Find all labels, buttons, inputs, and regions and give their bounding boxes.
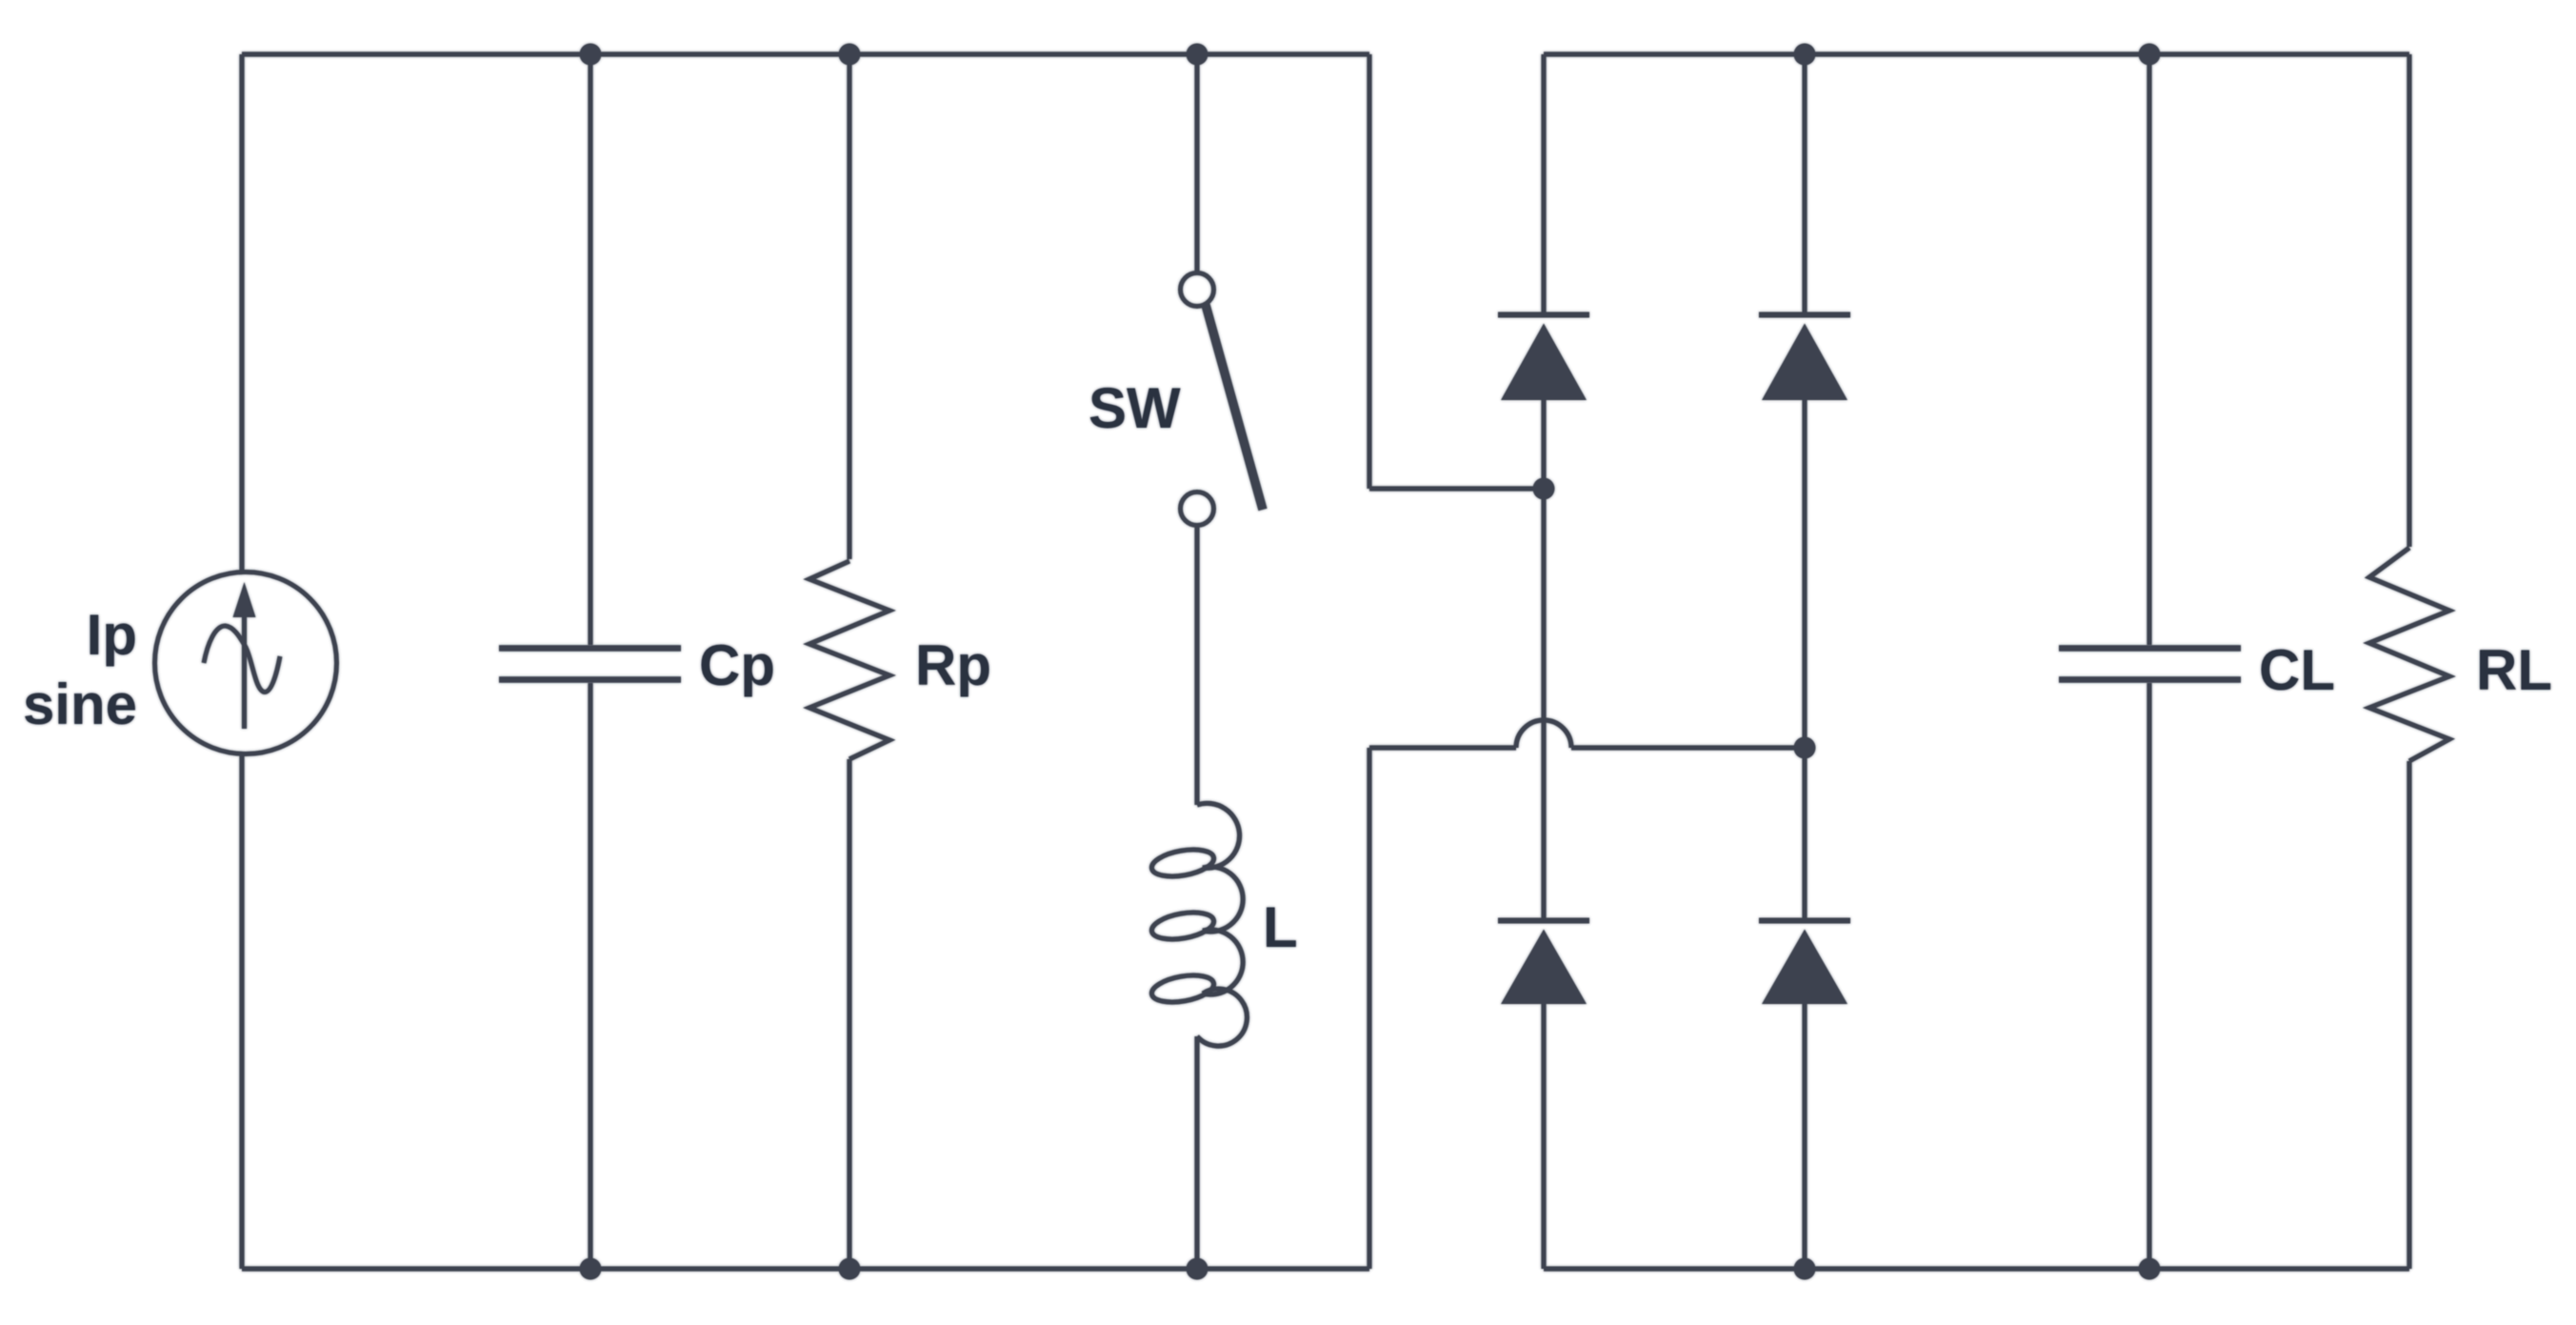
switch SW top contact circle (1181, 273, 1214, 307)
wire upper connector horizontal (1369, 486, 1544, 491)
node dot bridge left mid (1533, 478, 1555, 500)
svg-text:RL: RL (2476, 638, 2552, 702)
diode D4 triangle (1762, 930, 1847, 1005)
svg-text:sine: sine (23, 673, 137, 736)
diode D4 cathode bar (1759, 918, 1850, 924)
node dot top Cp (580, 44, 602, 66)
diode D2 anode lead (1802, 400, 1807, 748)
svg-text:SW: SW (1088, 376, 1181, 440)
node dot bridge bottom right branch (1794, 1258, 1816, 1280)
wire lower connector vertical (1367, 748, 1371, 1269)
resistor RL zigzag (2369, 548, 2449, 761)
node dot bridge top right branch (1794, 44, 1816, 66)
wire bottom rail left loop (242, 1266, 1369, 1271)
diode D3 cathode bar (1498, 918, 1589, 924)
inductor L coil bump 2 (1203, 867, 1243, 932)
node dot bottom L (1187, 1258, 1208, 1280)
inductor L coil bump 4 (1197, 989, 1247, 1046)
inductor L loop 1 (1149, 845, 1216, 880)
node dot top CL (2139, 44, 2161, 66)
diode D1 cathode bar (1498, 312, 1589, 318)
wire lower connector horizontal left (1369, 745, 1516, 750)
diode D3 lead from mid node (1541, 489, 1546, 918)
resistor Rp zigzag (809, 561, 889, 759)
inductor L coil bump 1 (1197, 803, 1240, 868)
resistor RL bottom lead (2406, 761, 2411, 1269)
diode D2 top lead (1802, 54, 1807, 312)
svg-text:L: L (1263, 895, 1298, 959)
capacitor CL bottom lead (2147, 683, 2151, 1269)
capacitor CL top plate (2059, 645, 2241, 652)
diode D1 triangle (1501, 324, 1587, 401)
node dot bottom CL (2139, 1258, 2161, 1280)
diode D3 triangle (1501, 930, 1587, 1005)
inductor L loop 2 (1149, 908, 1216, 943)
node dot top Rp (839, 44, 861, 66)
resistor Rp top lead (847, 54, 851, 559)
diode D1 top lead (1541, 54, 1546, 312)
capacitor CL bottom plate (2059, 676, 2241, 683)
capacitor Cp bottom plate (499, 676, 681, 683)
wire lower connector horizontal right (1571, 745, 1805, 750)
capacitor Cp top plate (499, 645, 681, 652)
svg-text:Rp: Rp (915, 633, 991, 697)
capacitor Cp top lead (588, 54, 592, 645)
wire top rail left loop (242, 51, 1369, 56)
diode D1 anode lead (1541, 400, 1546, 489)
current source arrowhead (233, 582, 256, 617)
capacitor Cp bottom lead (588, 683, 592, 1269)
node dot bottom Rp (839, 1258, 861, 1280)
diode D3 anode lead (1541, 1004, 1546, 1269)
current source arrow shaft (242, 612, 247, 729)
node dot bottom Cp (580, 1258, 602, 1280)
wire bridge top rail (1544, 51, 2409, 56)
diode D4 anode lead (1802, 1004, 1807, 1269)
node dot top SW (1187, 44, 1208, 66)
switch SW blade (1206, 305, 1263, 510)
switch SW bottom contact circle (1181, 492, 1214, 526)
inductor L bottom lead (1194, 1036, 1199, 1269)
capacitor CL top lead (2147, 54, 2151, 645)
wire upper connector vertical (1367, 54, 1371, 489)
wire bridge bottom rail (1544, 1266, 2409, 1271)
resistor Rp bottom lead (847, 759, 851, 1269)
wire left side vertical upper (239, 54, 244, 572)
wire lower connector hop (1516, 720, 1571, 748)
current source Ip circle (155, 572, 337, 754)
svg-text:Ip: Ip (87, 603, 137, 667)
diode D2 triangle (1762, 324, 1847, 401)
diode D4 lead from mid node (1802, 748, 1807, 918)
svg-text:CL: CL (2259, 638, 2335, 702)
svg-text:Cp: Cp (699, 633, 775, 697)
switch SW top lead (1194, 54, 1199, 273)
inductor L coil bump 3 (1203, 930, 1243, 994)
current source sine wave (204, 626, 280, 693)
switch SW bottom lead (1194, 526, 1199, 805)
inductor L loop 3 (1149, 971, 1216, 1006)
diode D2 cathode bar (1759, 312, 1850, 318)
wire left side vertical lower (239, 754, 244, 1269)
node dot bridge right mid (1794, 737, 1816, 759)
resistor RL top lead (2406, 54, 2411, 547)
